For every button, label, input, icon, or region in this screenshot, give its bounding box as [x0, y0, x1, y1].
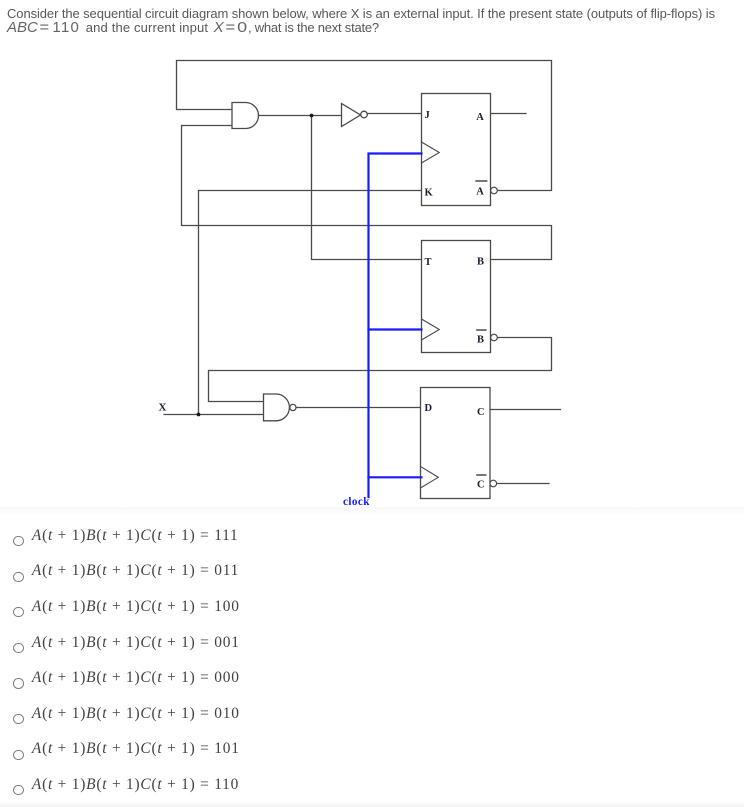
answer option 3 text — [32, 598, 240, 616]
nand-gate G3 — [264, 394, 297, 421]
U2 Bbar bubble — [491, 334, 498, 341]
faint band under circuit image — [0, 507, 744, 514]
clock net (blue) — [369, 154, 422, 498]
bottom band — [0, 801, 744, 807]
wire A output — [491, 113, 527, 115]
answer option 7 text — [32, 740, 240, 758]
answer option 8 radio — [13, 785, 23, 795]
U1 Abar bubble — [491, 187, 498, 194]
svg-text:A: A — [476, 187, 484, 198]
inverter G2 — [342, 104, 368, 127]
answer option 8 text — [32, 776, 239, 794]
question text line 1 — [7, 6, 715, 21]
answer option 1 radio — [13, 536, 23, 546]
svg-text:X: X — [159, 402, 167, 414]
flip-flop U3 (D) — [421, 388, 497, 499]
node N1 junction dot — [310, 114, 314, 118]
question text line 2 — [7, 19, 80, 36]
node X junction dot — [197, 413, 201, 417]
answer option 4 text — [32, 634, 240, 652]
answer option 7 radio — [13, 750, 23, 760]
U1 clock triangle — [422, 142, 440, 163]
flip-flop U1 (JK) — [422, 94, 498, 206]
svg-text:J: J — [425, 110, 430, 121]
svg-text:C: C — [477, 480, 485, 491]
U3 Cbar bubble — [490, 480, 497, 487]
answer option 2 text — [32, 562, 239, 580]
answer option 3 radio — [13, 607, 23, 617]
wire AND output to inverter input (node N1) — [259, 115, 342, 117]
answer option 2 radio — [13, 572, 23, 582]
answer option 6 radio — [13, 714, 23, 724]
svg-text:B: B — [477, 335, 484, 346]
svg-text:T: T — [425, 257, 432, 268]
flip-flop U2 (T) — [422, 241, 498, 353]
wire X input to NAND gate input 2 — [164, 414, 264, 416]
wire X node to K input — [199, 191, 422, 415]
svg-text:B: B — [477, 257, 484, 268]
svg-text:A: A — [476, 112, 484, 123]
svg-text:D: D — [425, 403, 433, 414]
wire B feedback: B output to AND gate input 2 — [182, 126, 552, 260]
wire Cbar output — [497, 483, 550, 485]
wire Abar feedback: Abar output to AND gate input 1 (top rail) — [177, 61, 552, 191]
U1 box — [422, 94, 491, 206]
U3 clock triangle — [421, 467, 439, 489]
svg-text:C: C — [477, 407, 485, 418]
answer option 4 radio — [13, 643, 23, 653]
svg-text:K: K — [425, 188, 434, 199]
wire NAND output to D input — [296, 407, 421, 409]
U3 box — [421, 388, 491, 499]
U2 clock triangle — [422, 319, 440, 340]
answer option 1 text — [32, 527, 239, 545]
answer option 6 text — [32, 705, 240, 723]
answer option 5 radio — [13, 678, 23, 688]
wire C output — [490, 409, 561, 411]
wire node N1 to T input — [312, 116, 422, 260]
wire Bbar feedback: Bbar output to NAND gate input 1 — [209, 338, 552, 402]
U2 box — [422, 241, 491, 353]
and-gate G1 — [232, 103, 259, 129]
answer option 5 text — [32, 669, 240, 687]
wire inverter output to J input — [368, 113, 422, 115]
